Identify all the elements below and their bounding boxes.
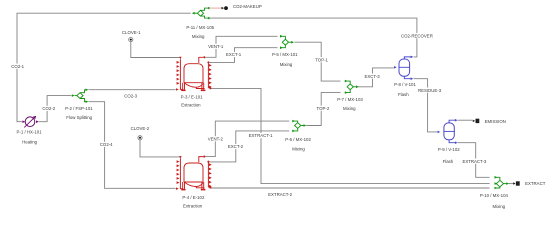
svg-text:EXCT-3: EXCT-3 bbox=[364, 74, 380, 79]
svg-text:Extraction: Extraction bbox=[183, 204, 203, 209]
svg-text:EXTRACT-1: EXTRACT-1 bbox=[249, 133, 273, 138]
svg-text:CO2-MAKEUP: CO2-MAKEUP bbox=[233, 4, 262, 9]
svg-text:Flow Splitting: Flow Splitting bbox=[66, 115, 92, 120]
svg-text:P-6 / MX-102: P-6 / MX-102 bbox=[285, 137, 311, 142]
svg-text:CLOVE-2: CLOVE-2 bbox=[131, 126, 150, 131]
svg-text:P-8 / V-101: P-8 / V-101 bbox=[394, 82, 416, 87]
svg-text:P-4 / E-102: P-4 / E-102 bbox=[182, 195, 205, 200]
svg-text:CO2-4: CO2-4 bbox=[100, 142, 113, 147]
svg-text:Mixing: Mixing bbox=[192, 34, 205, 39]
svg-text:Mixing: Mixing bbox=[493, 204, 506, 209]
svg-text:Flash: Flash bbox=[443, 159, 454, 164]
svg-text:Flash: Flash bbox=[398, 92, 409, 97]
svg-text:Mixing: Mixing bbox=[280, 62, 293, 67]
svg-text:VENT-1: VENT-1 bbox=[208, 44, 224, 49]
svg-text:P-1 / HX-101: P-1 / HX-101 bbox=[17, 130, 43, 135]
svg-text:CO2-RECOVER: CO2-RECOVER bbox=[401, 33, 433, 38]
svg-text:CLOVE-1: CLOVE-1 bbox=[122, 30, 141, 35]
svg-text:EXTRACT: EXTRACT bbox=[525, 181, 546, 186]
svg-text:EMISSION: EMISSION bbox=[485, 119, 506, 124]
svg-text:P-3 / E-101: P-3 / E-101 bbox=[181, 94, 204, 99]
svg-text:EXTRACT-2: EXTRACT-2 bbox=[268, 192, 292, 197]
svg-text:Heating: Heating bbox=[22, 139, 38, 144]
svg-text:Extraction: Extraction bbox=[181, 102, 201, 107]
svg-text:CO2-3: CO2-3 bbox=[124, 94, 137, 99]
svg-text:P-2 / FSP-101: P-2 / FSP-101 bbox=[65, 106, 93, 111]
svg-text:P-5 / MX-101: P-5 / MX-101 bbox=[272, 52, 298, 57]
svg-text:TOP-1: TOP-1 bbox=[315, 57, 328, 62]
svg-text:EXCT-1: EXCT-1 bbox=[226, 52, 242, 57]
svg-text:VENT-2: VENT-2 bbox=[208, 137, 224, 142]
svg-text:Mixing: Mixing bbox=[343, 106, 356, 111]
svg-text:P-11 / MX-105: P-11 / MX-105 bbox=[186, 25, 214, 30]
svg-text:EXTRACT-3: EXTRACT-3 bbox=[462, 159, 486, 164]
svg-text:RESIDUE-3: RESIDUE-3 bbox=[418, 88, 442, 93]
svg-text:CO2-1: CO2-1 bbox=[11, 64, 24, 69]
svg-text:P-7 / MX-103: P-7 / MX-103 bbox=[337, 97, 363, 102]
svg-text:P-10 / MX-104: P-10 / MX-104 bbox=[480, 193, 509, 198]
svg-text:EXCT-2: EXCT-2 bbox=[228, 144, 244, 149]
svg-text:P-9 / V-102: P-9 / V-102 bbox=[438, 147, 460, 152]
svg-text:TOP-2: TOP-2 bbox=[317, 106, 330, 111]
svg-text:Mixing: Mixing bbox=[292, 147, 305, 152]
svg-text:CO2-2: CO2-2 bbox=[42, 106, 55, 111]
